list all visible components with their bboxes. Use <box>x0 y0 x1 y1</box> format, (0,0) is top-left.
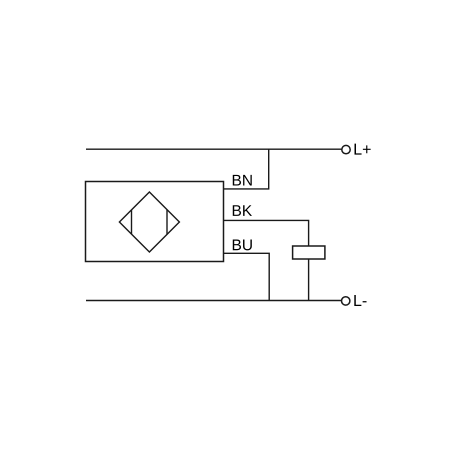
sensor symbol diamond <box>119 192 179 252</box>
label BK <box>233 205 252 216</box>
sensor symbol left chord <box>131 210 133 234</box>
wire BK <box>224 220 309 246</box>
wire load to L- rail <box>308 259 310 301</box>
label BU <box>233 240 252 251</box>
wire bottom L- rail <box>86 300 341 302</box>
sensor symbol right chord <box>166 210 168 235</box>
wire BU <box>224 253 270 300</box>
sensor box <box>86 182 224 262</box>
terminal L- <box>342 297 350 305</box>
label BN <box>233 175 252 186</box>
wire top L+ rail <box>86 148 342 150</box>
label L+ <box>355 144 371 155</box>
terminal L+ <box>342 145 350 153</box>
wire BN <box>224 149 269 189</box>
load resistor <box>293 246 325 259</box>
label L- <box>354 295 366 306</box>
